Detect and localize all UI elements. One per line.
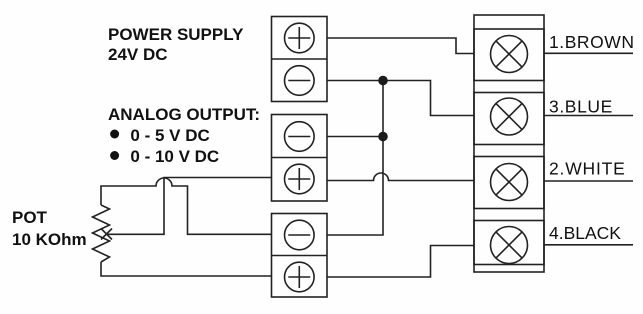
svg-text:4.BLACK: 4.BLACK — [549, 223, 621, 243]
svg-text:ANALOG OUTPUT:: ANALOG OUTPUT: — [108, 105, 260, 124]
svg-text:24V DC: 24V DC — [108, 45, 168, 64]
svg-text:10 KOhm: 10 KOhm — [12, 230, 87, 249]
svg-text:0 - 10 V DC: 0 - 10 V DC — [130, 147, 219, 166]
svg-text:3.BLUE: 3.BLUE — [549, 96, 613, 116]
svg-text:POT: POT — [12, 208, 48, 227]
svg-text:POWER SUPPLY: POWER SUPPLY — [108, 25, 244, 44]
svg-text:2.WHITE: 2.WHITE — [549, 159, 626, 179]
svg-text:1.BROWN: 1.BROWN — [549, 32, 635, 52]
svg-text:0 - 5 V DC: 0 - 5 V DC — [130, 126, 209, 145]
